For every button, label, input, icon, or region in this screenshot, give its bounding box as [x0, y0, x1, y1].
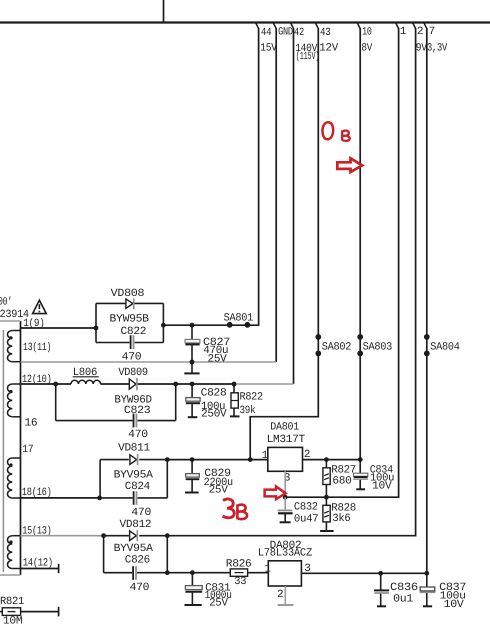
capacitor C828 plates — [186, 398, 200, 404]
svg-text:R822: R822 — [240, 391, 263, 403]
node C836 tap — [378, 571, 383, 576]
warning triangle symbol — [33, 300, 47, 313]
test point SA802 — [315, 334, 351, 356]
capacitor C827 plates — [185, 339, 200, 344]
transformer top edge — [0, 320, 21, 322]
svg-text:470: 470 — [130, 582, 150, 594]
svg-text:SA801: SA801 — [224, 312, 254, 324]
resistor R822 stem top — [233, 384, 235, 393]
winding W4 (pins 15-14) — [7, 536, 20, 569]
svg-text:10V: 10V — [444, 599, 465, 611]
capacitor C823 plates — [134, 414, 137, 428]
svg-text:9V: 9V — [416, 43, 428, 55]
ground bar C836 — [377, 605, 386, 607]
capacitor C831 stem — [191, 573, 193, 605]
capacitor C826 plates — [133, 566, 136, 580]
capacitor C834 plates — [353, 473, 368, 479]
wire DA802 pin2 stem — [284, 586, 286, 605]
node VD808 anode — [94, 326, 99, 331]
svg-text:470: 470 — [131, 507, 151, 519]
wire top bus — [0, 21, 490, 23]
svg-text:470: 470 — [122, 352, 142, 364]
svg-text:15V: 15V — [260, 43, 277, 55]
svg-text:R827: R827 — [331, 464, 356, 476]
ground bar C829 — [185, 492, 199, 494]
diode VD809 symbol — [129, 378, 137, 391]
node 8V rail / C834 — [358, 457, 363, 462]
svg-text:1: 1 — [400, 26, 407, 38]
test point SA804 — [424, 334, 460, 356]
node C827 tap — [190, 323, 195, 328]
annotation red 0 — [322, 122, 333, 139]
svg-text:VD811: VD811 — [118, 443, 150, 455]
resistor R826 body — [230, 569, 247, 576]
svg-text:00’: 00’ — [0, 296, 12, 308]
diode VD811 symbol — [130, 454, 138, 465]
svg-text:SA804: SA804 — [430, 341, 460, 353]
capacitor C834 stem — [359, 460, 361, 489]
svg-text:3,3V: 3,3V — [427, 43, 448, 55]
svg-text:7: 7 — [429, 26, 435, 38]
transformer bottom edge — [0, 574, 21, 576]
svg-text:44: 44 — [261, 27, 272, 39]
winding W1 polarity dot — [9, 336, 12, 339]
diode VD811 parallel box frame — [100, 460, 168, 498]
svg-text:VD809: VD809 — [118, 367, 147, 379]
svg-text:12V: 12V — [319, 43, 338, 55]
pin 42 tick — [291, 23, 294, 29]
wire rail 43 (12V) — [250, 28, 318, 460]
node VD812 cathode top (9V) — [165, 533, 170, 538]
wire rail GND — [275, 28, 277, 362]
pin 7 tick — [424, 23, 427, 29]
svg-text:13(11): 13(11) — [23, 342, 51, 354]
capacitor C828 stem — [191, 384, 193, 417]
winding W2 (pins 12-16) — [7, 384, 20, 417]
wire rail 1 (ADJ) — [285, 28, 398, 497]
svg-text:680: 680 — [332, 476, 351, 488]
pin 44 tick — [256, 23, 259, 29]
annotation red v (3 V) — [237, 504, 247, 519]
svg-text:25V: 25V — [209, 485, 229, 497]
node R822 tap — [232, 382, 237, 387]
svg-text:L806: L806 — [73, 367, 97, 379]
node R827 tap — [324, 457, 329, 462]
node VD811 cathode — [165, 457, 170, 462]
regulator DA801 body — [268, 447, 303, 471]
capacitor C829 stem — [191, 460, 193, 493]
node C831 tap — [190, 570, 195, 575]
svg-text:1: 1 — [262, 450, 269, 462]
svg-text:3k6: 3k6 — [332, 513, 350, 525]
ground bar DA802 pin2 — [278, 604, 294, 606]
wire rail 10 (8V) — [359, 28, 361, 460]
diode VD812 symbol — [130, 530, 138, 541]
svg-text:1: 1 — [264, 564, 271, 576]
svg-text:2: 2 — [277, 589, 283, 601]
node C827 on GND rail — [190, 360, 195, 365]
ground bar C837 — [423, 605, 432, 607]
ground bar R822 — [230, 415, 240, 417]
ground bar R828 — [320, 530, 334, 532]
node VD811 anode — [97, 496, 102, 501]
node 12V rail joins DA801 input — [248, 457, 253, 462]
regulator DA802 body — [268, 561, 301, 586]
resistor R828 stem top — [325, 497, 327, 505]
svg-text:C826: C826 — [125, 555, 150, 567]
resistor R827 stem top — [325, 460, 327, 468]
svg-text:GND: GND — [278, 27, 293, 39]
resistor R827 body — [323, 468, 330, 485]
wire top-left vertical stub — [163, 0, 165, 23]
wire pin 15(13) to VD812 — [21, 535, 104, 537]
inductor L806 symbol — [71, 380, 101, 384]
pin 2 tick — [413, 23, 416, 29]
svg-text:43: 43 — [320, 27, 331, 39]
diode VD809 parallel box frame — [56, 384, 176, 421]
pin 1 tick — [396, 23, 399, 29]
capacitor C832 stem — [284, 497, 286, 522]
R821 stub end tick — [58, 607, 60, 617]
svg-text:25V: 25V — [208, 353, 228, 365]
svg-text:39k: 39k — [240, 405, 256, 417]
wire R826 to DA802 pin1 — [248, 572, 269, 574]
inductor L806 underline — [73, 376, 99, 378]
wire pin 14(12) stub — [21, 568, 59, 570]
pin 43 tick — [316, 23, 319, 29]
pin 14(12) stub end tick — [58, 564, 60, 573]
svg-text:BYV95A: BYV95A — [114, 543, 154, 555]
svg-text:10M: 10M — [3, 615, 22, 627]
node C829 tap — [190, 457, 195, 462]
ground bar C828 — [188, 416, 198, 418]
svg-text:33: 33 — [234, 576, 246, 588]
svg-text:C836: C836 — [390, 582, 418, 594]
capacitor C836 stem — [380, 573, 382, 606]
resistor R821 body — [2, 608, 20, 616]
resistor R821 lead left — [0, 611, 2, 613]
svg-text:VD808: VD808 — [111, 288, 145, 300]
node R827/R828 junction — [324, 495, 329, 500]
svg-text:250V: 250V — [201, 408, 227, 420]
svg-text:C832: C832 — [294, 501, 318, 513]
wire pin 1(9) to VD808 — [21, 327, 97, 329]
wire rail 42 (140V) — [293, 28, 295, 384]
svg-text:25V: 25V — [209, 598, 228, 610]
ground bar C832 — [280, 521, 291, 523]
svg-text:VD812: VD812 — [120, 519, 152, 531]
node DA801 ADJ — [283, 495, 288, 500]
test point SA803 — [357, 334, 392, 356]
wire DA802 output 3.3V — [301, 572, 426, 574]
svg-text:SA802: SA802 — [322, 341, 351, 353]
wire rail 44 (15V) — [163, 28, 258, 325]
resistor R827 stem bottom — [325, 485, 327, 498]
annotation red arrow upper — [337, 158, 362, 172]
transformer core line — [2, 330, 4, 572]
svg-text:LM317T: LM317T — [267, 434, 306, 446]
svg-text:BYW95B: BYW95B — [110, 314, 150, 326]
svg-text:2: 2 — [417, 26, 423, 38]
wire pin 18(16) to VD811 — [21, 497, 100, 499]
svg-text:8V: 8V — [361, 43, 372, 55]
wire 140V rail grey segment — [234, 383, 294, 385]
winding W3 polarity dot — [9, 463, 12, 466]
winding W3 (pins 17-18) — [8, 458, 21, 498]
resistor R822 body — [231, 393, 238, 408]
capacitor C836 plates — [374, 590, 389, 593]
svg-text:BYV95A: BYV95A — [114, 470, 154, 482]
svg-text:C828: C828 — [201, 388, 227, 400]
winding W2 polarity dot — [9, 390, 12, 393]
wire VD811 cathode to DA801 pin1 — [167, 459, 267, 461]
svg-text:0u47: 0u47 — [294, 514, 319, 526]
svg-text:L78L33ACZ: L78L33ACZ — [258, 547, 313, 559]
svg-text:10V: 10V — [372, 481, 392, 493]
wire R821 to stub — [21, 611, 59, 613]
capacitor C837 plates — [420, 587, 436, 592]
resistor R828 body — [323, 505, 330, 522]
wire rail 7 (3.3V) — [426, 28, 428, 573]
transformer T801 body edge — [20, 321, 22, 575]
capacitor C831 plates — [185, 586, 202, 592]
svg-text:470: 470 — [128, 429, 148, 441]
svg-text:C824: C824 — [125, 481, 151, 493]
capacitor C822 plates — [131, 335, 134, 349]
node C828 tap — [190, 382, 195, 387]
node VD808 cathode — [161, 323, 166, 328]
svg-text:R821: R821 — [0, 596, 25, 608]
node C837 / 3.3V rail — [424, 571, 429, 576]
node VD809 anode — [53, 382, 58, 387]
winding W1 (pins 1-13) — [7, 331, 20, 362]
capacitor C829 plates — [186, 474, 200, 480]
diode VD808 symbol — [126, 298, 134, 309]
svg-text:16: 16 — [25, 418, 38, 430]
annotation red v (0 V) — [342, 130, 350, 141]
test point SA801 — [224, 312, 254, 327]
svg-text:SA803: SA803 — [363, 341, 392, 353]
resistor R828 stem bottom — [325, 522, 327, 531]
node VD812 cathode bottom — [165, 570, 170, 575]
svg-text:17: 17 — [22, 444, 33, 456]
svg-text:42: 42 — [294, 27, 304, 39]
node VD812 anode — [101, 533, 106, 538]
annotation red arrow lower — [265, 486, 286, 499]
wire DA801 pin3 stem — [284, 471, 286, 497]
capacitor C832 plates — [278, 510, 293, 513]
ground bar C831 — [185, 604, 202, 606]
svg-text:(115V): (115V) — [296, 51, 320, 63]
pin GND tick — [273, 23, 276, 29]
capacitor C824 plates — [134, 491, 137, 505]
wire GND rail from pin 13(11) — [21, 361, 277, 363]
svg-text:10: 10 — [362, 26, 372, 38]
pin 10 tick — [357, 23, 360, 29]
ground bar C827 — [184, 372, 199, 374]
svg-text:DA801: DA801 — [270, 422, 299, 434]
wire DA801 output — [303, 459, 361, 461]
capacitor C837 stem — [426, 573, 428, 606]
resistor R822 stem bottom — [233, 408, 235, 416]
diode VD812 parallel box frame — [104, 536, 168, 573]
diode VD808 parallel box frame — [96, 303, 163, 342]
capacitor C827 stem — [191, 325, 193, 373]
wire rail 2 (9V) — [167, 28, 415, 536]
winding W4 polarity dot — [9, 540, 12, 543]
node VD809 cathode — [173, 382, 178, 387]
annotation red 3 — [223, 499, 235, 518]
svg-text:0u1: 0u1 — [393, 594, 414, 606]
wire pin 12(10) / 140V rail — [21, 383, 235, 385]
wire VD812 to R826 — [167, 572, 230, 574]
ground bar C834 — [356, 488, 365, 490]
